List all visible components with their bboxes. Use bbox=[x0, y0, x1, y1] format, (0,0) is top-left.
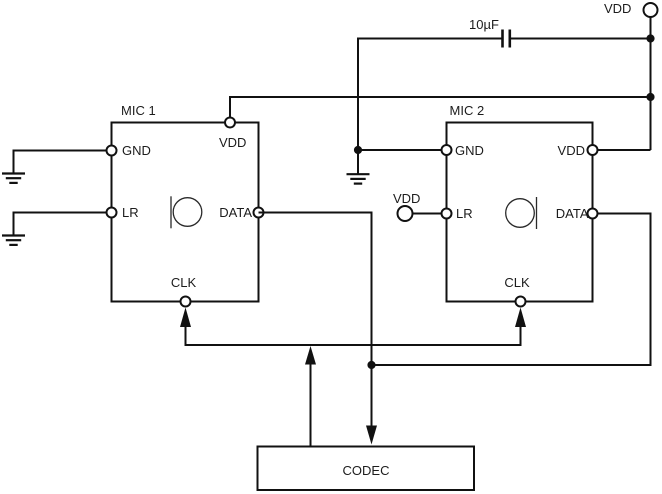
pin MIC1 DATA bbox=[254, 208, 264, 218]
svg-text:LR: LR bbox=[456, 206, 473, 221]
svg-text:GND: GND bbox=[455, 143, 484, 158]
wire: MIC1 DATA to data net bbox=[259, 213, 372, 426]
wire: data bus to right rail bbox=[372, 214, 651, 366]
arrow to MIC1 CLK bbox=[180, 308, 191, 328]
pin MIC2 LR bbox=[442, 209, 452, 219]
svg-text:10µF: 10µF bbox=[469, 17, 499, 32]
svg-text:DATA: DATA bbox=[219, 205, 252, 220]
svg-text:MIC 2: MIC 2 bbox=[450, 103, 485, 118]
svg-text:VDD: VDD bbox=[219, 135, 246, 150]
CODEC box bbox=[258, 447, 475, 491]
pin MIC1 CLK bbox=[181, 297, 191, 307]
junction: VDD distribution rail bbox=[646, 93, 654, 101]
junction: cap wire / VDD rail bbox=[646, 34, 654, 42]
wire: MIC2 GND to mid ground bbox=[358, 149, 447, 151]
wire: CODEC clk feed bbox=[310, 364, 312, 447]
arrow to MIC2 CLK bbox=[515, 308, 526, 328]
wire: MIC2 VDD to right rail bbox=[593, 149, 651, 151]
pin MIC1 VDD bbox=[225, 118, 235, 128]
svg-text:VDD: VDD bbox=[393, 191, 420, 206]
power terminal VDD (top right) bbox=[644, 3, 658, 17]
wire: CLK bus bbox=[186, 327, 521, 345]
svg-text:CLK: CLK bbox=[171, 275, 197, 290]
pin MIC2 DATA bbox=[588, 209, 598, 219]
microphone symbol (MIC2) bbox=[506, 197, 537, 229]
wire: MIC1 GND to ground bbox=[14, 151, 112, 174]
pin MIC2 GND bbox=[442, 145, 452, 155]
wire: capacitor right segment bbox=[511, 38, 651, 40]
MIC 1 box bbox=[112, 123, 259, 302]
pin MIC2 CLK bbox=[516, 297, 526, 307]
svg-text:LR: LR bbox=[122, 205, 139, 220]
wire: VDD terminal down right rail bbox=[650, 17, 652, 150]
capacitor C1 plates bbox=[501, 30, 504, 48]
microphone symbol (MIC1) bbox=[171, 196, 202, 228]
arrow up to CLK bus bbox=[305, 346, 316, 365]
svg-text:GND: GND bbox=[122, 143, 151, 158]
pin MIC2 VDD bbox=[588, 145, 598, 155]
wire: VDD terminal to MIC2 LR bbox=[413, 213, 447, 215]
svg-text:MIC 1: MIC 1 bbox=[121, 103, 156, 118]
pin MIC1 LR bbox=[107, 208, 117, 218]
svg-text:VDD: VDD bbox=[558, 143, 585, 158]
wire: VDD distribution rail y=97 bbox=[230, 97, 651, 123]
ground (MIC1 GND) bbox=[2, 174, 25, 183]
svg-text:DATA: DATA bbox=[556, 206, 589, 221]
svg-text:CLK: CLK bbox=[504, 275, 530, 290]
power terminal VDD (MIC2 LR) bbox=[398, 206, 413, 221]
pin MIC1 GND bbox=[107, 146, 117, 156]
junction: mid ground bbox=[354, 146, 362, 154]
ground (mid) bbox=[347, 174, 370, 183]
MIC 2 box bbox=[447, 123, 593, 302]
svg-text:VDD: VDD bbox=[604, 1, 631, 16]
arrow into CODEC (data) bbox=[366, 426, 377, 445]
ground (MIC1 LR) bbox=[2, 236, 25, 245]
svg-text:CODEC: CODEC bbox=[343, 463, 390, 478]
wire: capacitor left segment bbox=[358, 39, 502, 175]
junction: data net bbox=[367, 361, 375, 369]
wire: MIC1 LR to ground bbox=[14, 213, 112, 236]
